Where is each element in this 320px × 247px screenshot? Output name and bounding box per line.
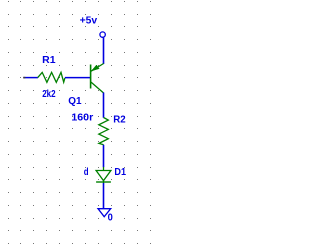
svg-text:+5v: +5v <box>80 15 98 26</box>
power terminal +5v <box>100 32 105 37</box>
wire D1 to ground <box>103 183 105 209</box>
transistor Q1 emitter <box>91 64 104 72</box>
svg-text:D1: D1 <box>114 167 126 178</box>
svg-text:0: 0 <box>108 211 113 223</box>
ground symbol <box>98 209 111 217</box>
svg-text:160r: 160r <box>71 113 93 124</box>
svg-text:Q1: Q1 <box>68 96 82 107</box>
wire R2 to D1 <box>103 145 105 167</box>
wire terminal to Q1 emitter <box>103 38 105 64</box>
resistor R2 <box>99 118 109 145</box>
diode D1 cathode bar <box>96 181 111 183</box>
svg-text:R1: R1 <box>42 55 56 66</box>
diode D1 anode lead <box>103 167 105 171</box>
transistor Q1 collector <box>91 82 104 93</box>
wire open end tip <box>23 77 25 79</box>
wire Q1 collector to R2 <box>103 93 105 118</box>
svg-text:d: d <box>84 167 89 178</box>
diode D1 triangle <box>96 171 111 181</box>
wire R1 to Q1 base <box>65 77 91 79</box>
resistor R1 <box>38 72 65 82</box>
wire R1 left lead <box>23 77 38 79</box>
transistor Q1 base bar <box>90 65 92 89</box>
svg-text:R2: R2 <box>113 114 126 125</box>
diode D1 cathode lead <box>103 181 105 184</box>
transistor Q1 emitter arrow <box>91 65 99 71</box>
svg-text:2k2: 2k2 <box>42 89 56 100</box>
